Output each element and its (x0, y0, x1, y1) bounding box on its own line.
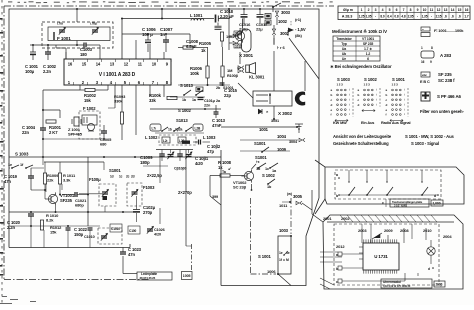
svg-text:1017: 1017 (235, 44, 242, 48)
svg-text:14: 14 (96, 62, 101, 67)
svg-text:1016: 1016 (235, 31, 242, 35)
wire bus y226 (9, 225, 100, 227)
svg-text:1.2: 1.2 (366, 52, 371, 56)
svg-text:13: 13 (110, 62, 115, 67)
svg-text:S 1003: S 1003 (337, 77, 350, 82)
svg-text:-: - (431, 15, 432, 19)
wire top bus y18.5 (122, 18, 214, 20)
svg-text:V I 1001 A 283 D: V I 1001 A 283 D (99, 72, 136, 78)
legend F1001 package (421, 27, 430, 31)
svg-text:▪▪: ▪▪ (422, 29, 424, 32)
svg-text:S 1003: S 1003 (15, 152, 29, 157)
svg-text:L 1002: L 1002 (145, 135, 158, 140)
svg-text:SC 238 f: SC 238 f (438, 78, 455, 83)
svg-text:1004: 1004 (277, 134, 287, 139)
svg-text:2: 2 (368, 8, 370, 12)
svg-text:d: d (434, 194, 436, 198)
svg-text:680p: 680p (75, 203, 84, 208)
svg-text:F∶ 1001........100k: F∶ 1001........100k (434, 28, 464, 33)
capacitor C1002 (45, 51, 51, 53)
svg-text:S 1001: S 1001 (258, 254, 271, 259)
F1001 inner box (48, 27, 110, 41)
battery X3001 oval (242, 29, 252, 52)
svg-text:3e: 3e (286, 251, 290, 255)
svg-text:47p: 47p (207, 149, 214, 154)
svg-text:.6: .6 (444, 15, 447, 19)
resistor R1011 (59, 162, 61, 173)
svg-text:KL 3001: KL 3001 (249, 74, 265, 79)
wire bead to transistor (221, 41, 223, 47)
svg-text:.6: .6 (458, 15, 461, 19)
svg-text:270p: 270p (143, 210, 153, 215)
svg-text:3004: 3004 (289, 140, 298, 144)
svg-text:M: M (286, 258, 289, 262)
svg-text:1003: 1003 (279, 228, 289, 233)
svg-text:3: 3 (375, 8, 377, 12)
wire diagonal bottom to module (278, 274, 291, 286)
svg-text:22k: 22k (47, 178, 54, 183)
svg-text:2003: 2003 (358, 228, 367, 233)
svg-text:R1005: R1005 (199, 41, 212, 46)
svg-text:38 974 36 26: 38 974 36 26 (140, 276, 156, 280)
wire top-right bus (224, 18, 229, 20)
svg-text:- 1,5V: - 1,5V (295, 27, 306, 32)
svg-text:C1010: C1010 (111, 227, 120, 231)
svg-text:1005: 1005 (183, 274, 191, 278)
svg-text:A 283: A 283 (440, 53, 452, 58)
svg-text:10: 10 (152, 62, 157, 67)
wire VT1002 emitter down (251, 184, 253, 190)
IC U1731 top pins (363, 239, 365, 243)
connector 1002 (276, 17, 278, 25)
crystal Z1001 (74, 117, 79, 126)
svg-text:Radio Aus Signal: Radio Aus Signal (381, 121, 411, 125)
dashed box F1004 (99, 184, 116, 206)
wire x186 long vertical (185, 166, 187, 246)
legend SF235 package (421, 72, 430, 77)
svg-text:10: 10 (423, 8, 427, 12)
svg-text:9: 9 (417, 8, 419, 12)
svg-text:S 1003 - Signal: S 1003 - Signal (411, 141, 439, 146)
svg-text:4ι20: 4ι20 (195, 161, 204, 166)
IC U1731 bottom pins (363, 270, 365, 274)
svg-text:↙: ↙ (228, 166, 231, 171)
svg-text:S 1013: S 1013 (180, 83, 193, 88)
svg-text:SPF465: SPF465 (68, 132, 83, 137)
svg-text:-: - (417, 15, 418, 19)
svg-text:47n: 47n (4, 179, 11, 184)
wire VT1002 collector to connector (252, 164, 257, 169)
svg-text:F 1002: F 1002 (83, 106, 96, 111)
svg-text:6.4: 6.4 (387, 15, 391, 19)
trimmer in F1004 (102, 191, 108, 193)
wire IC pin16 up (65, 52, 67, 59)
svg-text:1d: 1d (110, 175, 114, 179)
capacitor cluster second (168, 154, 174, 156)
module inner wires (342, 253, 363, 255)
svg-text:3003: 3003 (281, 10, 291, 15)
op-amp IC VI 1001 A283 D body (64, 59, 171, 85)
svg-text:2.15: 2.15 (436, 15, 442, 19)
svg-text:2002: 2002 (341, 216, 350, 221)
wire bus drop from frame (161, 9, 163, 19)
svg-text:2010: 2010 (423, 228, 432, 233)
wire right area vertical (287, 30, 289, 36)
svg-text:1.7 ∗: 1.7 ∗ (364, 47, 372, 51)
wire junction y110 (43, 109, 60, 111)
transistor VT1003 (235, 31, 244, 40)
svg-text:SF 235: SF 235 (363, 42, 374, 46)
switch bank outline (315, 160, 464, 214)
outer dash-dot border top (4, 5, 334, 7)
svg-text:2008: 2008 (400, 228, 409, 233)
wire jack down (304, 61, 306, 91)
svg-text:7: 7 (403, 8, 405, 12)
svg-text:⊦ r 6: ⊦ r 6 (277, 45, 285, 50)
svg-text:C100: C100 (129, 229, 137, 233)
svg-text:15k: 15k (84, 98, 91, 103)
wire riser x229 (228, 9, 230, 21)
resistor R1007 vertical (221, 66, 224, 77)
svg-text:Transistor: Transistor (336, 37, 352, 41)
svg-text:4.8: 4.8 (401, 15, 405, 19)
wire F1004 bottom to bus (104, 206, 106, 212)
transistor in module (374, 234, 380, 238)
module left connector wires (320, 251, 338, 253)
wire diagonal to 3003 (273, 3, 281, 7)
dashed box F1001 oscillator (42, 22, 113, 48)
wire long vertical x88 (87, 157, 89, 226)
edge tick marks on perforation (0, 18, 3, 20)
resistor R1001 (46, 120, 56, 123)
svg-text:L7Bβ: L7Bβ (90, 22, 97, 26)
svg-text:1e: 1e (8, 163, 12, 167)
coil symbol F1001 (53, 32, 55, 40)
capacitor C1004 (40, 127, 46, 129)
wire R1011 bottom down (59, 184, 61, 195)
svg-text:d: d (358, 103, 360, 107)
page edge perforation dotted line (1, 0, 3, 305)
wire bus under F1001 (30, 44, 84, 46)
wire F1001 to bus (76, 41, 78, 46)
Taschenempfaenger type plate (390, 199, 429, 207)
IC U1731 body (363, 243, 399, 270)
svg-text:22p: 22p (224, 93, 231, 98)
switch bank switches (348, 170, 350, 182)
svg-text:ebc: ebc (422, 73, 427, 77)
svg-text:b: b (386, 93, 388, 97)
svg-text:E B C: E B C (420, 80, 430, 84)
plug contact box upper (265, 14, 271, 19)
wire IC pin 11 up (135, 40, 137, 59)
svg-text:1.35: 1.35 (422, 15, 428, 19)
wire into F1004 (79, 193, 105, 195)
svg-text:2×270p: 2×270p (178, 190, 192, 195)
capacitor C1010 box (110, 224, 122, 232)
svg-text:8.2k: 8.2k (46, 218, 54, 223)
svg-text:1002: 1002 (278, 19, 288, 24)
svg-text:S1001: S1001 (109, 168, 121, 173)
small box 1017 (234, 44, 241, 48)
svg-text:200β: 200β (436, 283, 443, 287)
connector X3002 terminal (272, 29, 275, 35)
svg-text:C1010: C1010 (84, 235, 95, 239)
svg-text:1,000: 1,000 (433, 202, 441, 206)
wire bus y139 under filter (43, 138, 104, 140)
svg-text:2 K7: 2 K7 (49, 130, 58, 135)
svg-text:F 1001: F 1001 (57, 36, 71, 41)
svg-text:16: 16 (421, 60, 425, 64)
svg-text:VT 1001: VT 1001 (362, 37, 374, 41)
svg-text:4: 4 (382, 8, 384, 12)
svg-text:1M: 1M (227, 68, 233, 73)
module outline (323, 215, 463, 289)
lamp wires (430, 240, 432, 247)
svg-text:Uhrenmodul: Uhrenmodul (383, 280, 401, 284)
svg-text:Filter von unten geseh-: Filter von unten geseh- (420, 109, 464, 114)
jack box X3002 (253, 91, 292, 106)
svg-text:2012: 2012 (336, 244, 345, 249)
svg-text:⊦x: ⊦x (256, 160, 260, 164)
wire pin2 branch (79, 85, 81, 90)
diode symbol at jack (258, 109, 262, 114)
svg-text:1k: 1k (201, 48, 206, 53)
plug contact box lower (265, 20, 271, 25)
transistor VT1002 (244, 171, 253, 180)
svg-text:1.25: 1.25 (359, 15, 365, 19)
svg-text:Meßinstrument ≙ 100k Ω /V: Meßinstrument ≙ 100k Ω /V (332, 29, 387, 34)
svg-text:22n: 22n (204, 103, 211, 107)
wire top feed vertical (76, 9, 78, 22)
wire bus over C1006 C1007 (122, 33, 190, 35)
svg-text:.6: .6 (451, 15, 454, 19)
wire leads down to frame bottom (30, 226, 32, 248)
connector arrows into X3001 (233, 34, 239, 37)
svg-text:2d: 2d (131, 175, 135, 179)
dashed box F1002 (79, 111, 100, 139)
wire bus y212 (9, 211, 136, 213)
svg-text:C1026: C1026 (154, 228, 165, 232)
svg-text:1n: 1n (160, 32, 165, 37)
svg-text:1001: 1001 (259, 127, 269, 132)
svg-text:d: d (428, 267, 430, 271)
svg-text:14: 14 (451, 8, 455, 12)
svg-text:180p: 180p (140, 160, 150, 165)
svg-text:8: 8 (410, 8, 412, 12)
wire C1023 to Leiterplatte (123, 273, 137, 275)
capacitor C1013 (214, 111, 219, 113)
svg-text:5: 5 (389, 8, 391, 12)
svg-text:(r1): (r1) (295, 17, 302, 22)
svg-text:100k: 100k (190, 71, 200, 76)
tag 1000 (431, 200, 443, 206)
wire left drop to IC (65, 48, 67, 59)
scan specks top (8, 1, 12, 2)
wire C1008 branch (189, 34, 191, 44)
IC U1731 left pins (359, 246, 363, 248)
wire pin4 down (107, 85, 109, 90)
svg-text:Ein Aus: Ein Aus (361, 121, 374, 125)
svg-text:33k: 33k (149, 98, 156, 103)
svg-text:S1001: S1001 (254, 141, 266, 146)
svg-text:1c: 1c (119, 175, 123, 179)
svg-text:KW MW: KW MW (333, 121, 347, 125)
svg-text:8.0: 8.0 (380, 15, 384, 19)
switch bank dashed box (335, 170, 441, 199)
svg-text:R100β: R100β (227, 74, 239, 78)
wire base drop VT1001 (44, 190, 46, 199)
capacitor C1001 electrolytic (30, 51, 36, 53)
capacitor cluster third (177, 153, 183, 155)
svg-text:4,19 4,19 12 176 1039 3: 4,19 4,19 12 176 1039 30 (383, 284, 411, 288)
wire drops into F1003 (134, 157, 136, 189)
svg-text:Cβ10β0: Cβ10β0 (174, 167, 186, 171)
wire C1003 drop to IC pin (99, 45, 101, 59)
switch contact box black (196, 87, 203, 92)
connector 3003 (275, 11, 278, 17)
svg-text:Typ: Typ (341, 42, 347, 46)
junction top right (272, 6, 274, 8)
svg-text:1: 1 (361, 8, 363, 12)
capacitor C1014 (198, 97, 204, 99)
measurement table (338, 6, 470, 20)
svg-text:10k: 10k (226, 34, 233, 39)
connector arrows at speaker (238, 66, 244, 69)
frame lower-right box (221, 198, 319, 286)
svg-text:12: 12 (437, 8, 441, 12)
wire verticals bottom left (45, 184, 47, 192)
svg-text:2.35: 2.35 (408, 15, 414, 19)
svg-text:1 2 3: 1 2 3 (392, 83, 399, 87)
svg-text:13: 13 (444, 8, 448, 12)
svg-text:2.2n: 2.2n (7, 225, 16, 230)
svg-text:1011: 1011 (279, 203, 288, 208)
capacitor C1021 series (74, 192, 76, 197)
svg-text:3051: 3051 (271, 119, 279, 123)
svg-text:Ø/μ m: Ø/μ m (343, 8, 353, 12)
wire IC pin 9 up (163, 52, 165, 59)
resistor 10k vertical (220, 32, 223, 41)
module dashed box (334, 224, 439, 285)
dash-dot drop to tag (191, 244, 193, 272)
wire transistor collector up (242, 19, 244, 29)
svg-text:S 1002: S 1002 (364, 77, 377, 82)
svg-text:Ua: Ua (342, 47, 346, 51)
svg-text:d: d (331, 103, 333, 107)
transistor VT1001 (48, 194, 57, 203)
frame bottom corner riser x130 (129, 244, 131, 248)
svg-text:2.20 μF: 2.20 μF (220, 14, 234, 19)
wire R1009 bottom to bus (44, 184, 46, 190)
wire mid vertical x136 (135, 85, 137, 135)
tag 2005 (434, 281, 445, 287)
svg-text:6: 6 (396, 8, 398, 12)
svg-text:2001: 2001 (323, 216, 332, 221)
antenna symbol (298, 124, 300, 133)
switch box S1001 solid (278, 236, 291, 274)
capacitor C1003 (83, 43, 85, 48)
switch bank wire bottom (339, 194, 438, 196)
svg-text:1e: 1e (279, 251, 283, 255)
wire long bus y157 (9, 156, 221, 158)
jack contacts (256, 94, 268, 96)
svg-text:Gezeichnete Schalterstellung: Gezeichnete Schalterstellung (333, 141, 389, 146)
svg-text:L2ι: L2ι (163, 139, 168, 143)
svg-text:b: b (358, 93, 360, 97)
capacitor C1016 electrolytic (241, 14, 248, 16)
svg-text:1006: 1006 (267, 269, 276, 274)
svg-text:c: c (382, 201, 384, 205)
lamp symbol (427, 247, 435, 255)
svg-text:11: 11 (430, 8, 434, 12)
wire mid vertical x115 (114, 85, 116, 108)
wire mid vertical x150 (149, 85, 151, 97)
filter F1002 internals (82, 115, 97, 125)
scan specks bottom left (2, 296, 7, 297)
wire x104 drop (103, 162, 105, 170)
svg-text:A 28.3: A 28.3 (342, 15, 352, 19)
resistor R1009 (44, 162, 46, 173)
svg-text:f: f (386, 113, 387, 117)
svg-text:F100μ: F100μ (89, 177, 101, 182)
svg-text:X 3002: X 3002 (278, 111, 293, 116)
wire bus y190 bottom-left (31, 189, 45, 191)
legend SPF466 package (421, 92, 430, 101)
wire bus y162 component tops (44, 161, 104, 163)
trimmer C1026 (147, 228, 153, 230)
svg-text:S 1002: S 1002 (262, 173, 275, 178)
svg-text:15k: 15k (50, 230, 57, 235)
svg-text:SF235: SF235 (60, 198, 73, 203)
capacitor C1010b (88, 227, 93, 229)
main frame bottom edge (9, 247, 130, 249)
svg-text:3005: 3005 (293, 194, 303, 199)
svg-text:6: 6 (367, 57, 369, 61)
legend A283 package (421, 51, 434, 58)
svg-text:16: 16 (68, 62, 73, 67)
dash-dot boundary bottom (251, 273, 277, 275)
wire bus 1001 (221, 126, 297, 128)
svg-text:12: 12 (124, 62, 129, 67)
transistor data table (333, 36, 380, 61)
svg-text:SF 235: SF 235 (438, 72, 452, 77)
svg-text:(8k): (8k) (295, 33, 302, 38)
svg-text:X 3001: X 3001 (239, 53, 254, 58)
wire h bus y150 (156, 149, 193, 151)
svg-text:22μ: 22μ (256, 27, 263, 32)
svg-text:16: 16 (465, 8, 469, 12)
small box 1016 (234, 31, 241, 35)
wire x43 down to S1003 (42, 139, 44, 165)
svg-text:3.3k: 3.3k (63, 178, 71, 183)
svg-text:2.2n: 2.2n (43, 69, 52, 74)
resistor R1006 vertical (206, 66, 209, 78)
svg-text:L 1001: L 1001 (190, 13, 203, 18)
capacitor C1018 series electrolytic (215, 15, 217, 23)
svg-text:100μ: 100μ (25, 69, 35, 74)
capacitor C1012 series (198, 140, 200, 145)
wire h bus y166 (143, 165, 168, 167)
svg-text:1.7: 1.7 (464, 15, 468, 19)
svg-text:f: f (331, 113, 332, 117)
coil box L2B on switch row (193, 124, 203, 131)
svg-text:47n: 47n (128, 252, 135, 257)
outer dash-dot border left (3, 6, 5, 280)
svg-text:L7ι: L7ι (152, 127, 157, 131)
svg-text:0.8: 0.8 (394, 15, 398, 19)
diagonal wire to jack (289, 38, 319, 79)
svg-text:4/20: 4/20 (154, 232, 161, 236)
